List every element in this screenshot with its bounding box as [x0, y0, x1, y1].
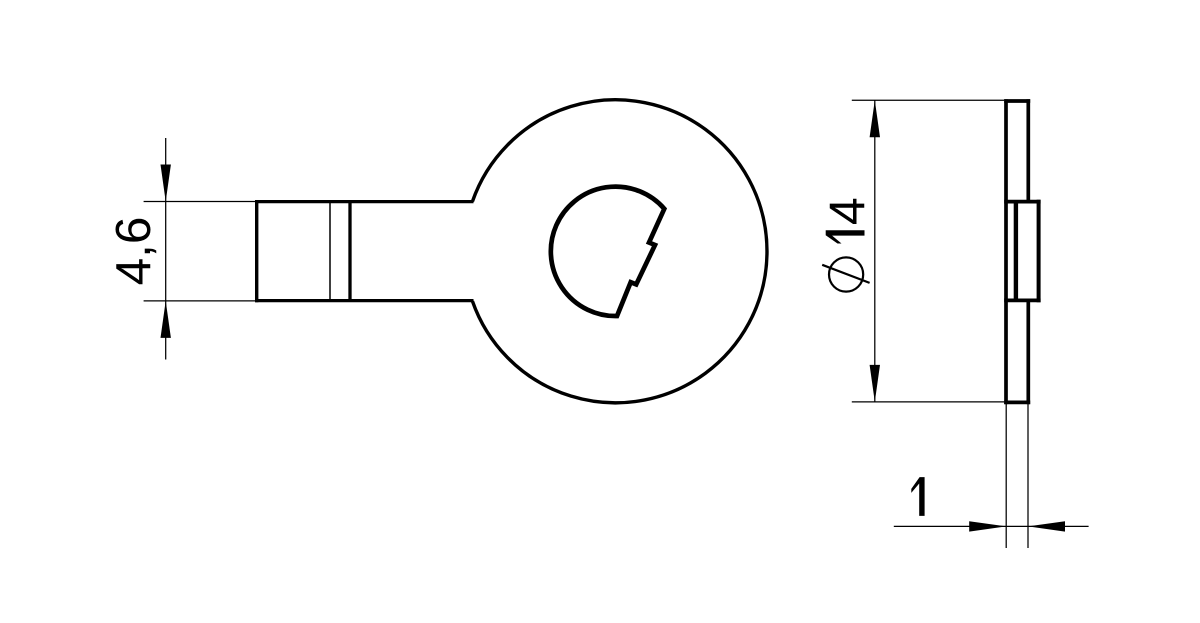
dimension 1 : arrow left	[969, 521, 1006, 531]
dimension dia14 : arrow bottom	[870, 365, 880, 402]
side view: plate bottom edge	[1004, 401, 1030, 405]
dimension dia14 : extension line top	[852, 99, 1004, 101]
side view: plate right edge upper	[1026, 99, 1030, 201]
dimension 4,6 : arrow bottom	[161, 301, 171, 338]
tab thin bend line	[329, 202, 331, 301]
tab thick bend line	[348, 202, 351, 301]
side view: boss bottom edge	[1004, 299, 1040, 303]
dimension 1 : arrow right	[1028, 521, 1065, 531]
D-hole with stepped flat	[551, 187, 664, 316]
side view: plate top edge	[1004, 99, 1030, 103]
dimension 1 : dimension line	[894, 525, 1089, 527]
dimension dia14 : arrow top	[870, 100, 880, 137]
tab bottom edge	[255, 299, 473, 302]
dimension dia14 : dimension line	[874, 100, 876, 402]
side view: plate right edge lower	[1026, 300, 1030, 404]
dimension 4,6 : extension line bottom	[144, 300, 257, 302]
dimension dia14 : text 14 digit 1	[826, 230, 865, 243]
outer circle (front view, interrupted at tab)	[472, 100, 767, 403]
tab top edge	[255, 200, 473, 203]
dimension dia14 : diameter symbol circle	[829, 257, 863, 291]
dimension 1 : extension line left	[1005, 403, 1007, 548]
side view: boss top edge	[1004, 200, 1040, 204]
side view: boss right edge	[1037, 200, 1041, 302]
side view: plate left edge	[1004, 99, 1008, 404]
dimension 4,6 : dimension line	[165, 138, 167, 360]
dimension 4,6 : extension line top	[144, 201, 257, 203]
dimension 1 : extension line right	[1027, 403, 1029, 548]
side view: boss left edge	[1014, 202, 1018, 301]
dimension dia14 : extension line bottom	[852, 401, 1004, 403]
svg-text:4,6: 4,6	[106, 217, 161, 286]
dimension 1 : text	[911, 477, 924, 516]
tab left edge	[255, 200, 258, 302]
dimension dia14 : diameter symbol slash	[822, 265, 869, 283]
dimension 4,6 : arrow top	[161, 165, 171, 202]
svg-text:4: 4	[819, 197, 875, 225]
